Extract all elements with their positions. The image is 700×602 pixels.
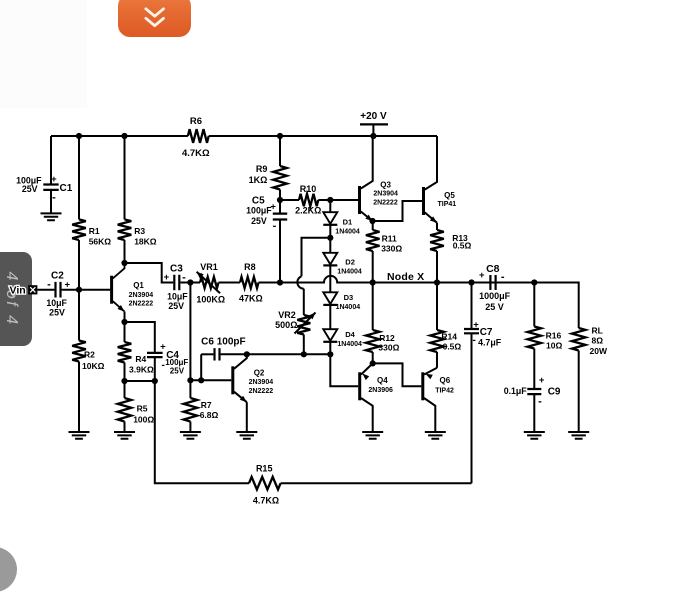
resistor R6 — [188, 129, 209, 143]
wire: R15 left segment up to C4 node — [155, 381, 249, 483]
wire: Q3 base — [330, 199, 358, 201]
junction: D4 / bias line / Q4 base wire — [327, 351, 333, 357]
transistor Q4 — [360, 363, 393, 432]
junction: C2 / R1 / R2 / Q1 base — [76, 287, 82, 293]
svg-text:R4: R4 — [135, 354, 146, 364]
resistor R5 — [118, 398, 132, 422]
junction: Q3 emitter / R11 / Q5 base wire — [369, 218, 375, 224]
svg-text:+: + — [473, 320, 479, 331]
capacitor C9 — [527, 389, 541, 394]
wire: VR2 to bias line — [303, 335, 305, 355]
wire: Q1 emitter down to node — [124, 312, 126, 322]
svg-text:1N4004: 1N4004 — [335, 228, 360, 235]
svg-text:D4: D4 — [345, 330, 355, 339]
junction: rail / R1 top — [76, 133, 82, 139]
svg-text:100μF: 100μF — [246, 205, 272, 215]
svg-text:25V: 25V — [168, 301, 184, 311]
svg-text:2N2222: 2N2222 — [373, 199, 398, 206]
wire: C4 to bottom node — [154, 357, 156, 381]
capacitor C4 — [147, 353, 163, 357]
svg-text:1000μF: 1000μF — [479, 291, 511, 301]
ground (Q2 emitter) — [236, 432, 257, 439]
wire: node line with hop over diode string — [280, 276, 579, 283]
junction: D1 / D2 / VR2 branch — [327, 235, 333, 241]
junction: R4 / R5 / C4 wire — [121, 378, 127, 384]
wire: D2 top — [329, 238, 331, 253]
wire: Q1 collector node to C3 — [125, 263, 174, 283]
wire: R2 to ground — [78, 362, 80, 433]
wire: +20V top rail right segment — [209, 135, 437, 137]
wire: Vin to C2 — [37, 289, 54, 291]
wire: D1-D2 junction left to VR2 column — [302, 238, 331, 276]
svg-text:Vin: Vin — [10, 285, 26, 297]
resistor R7 — [184, 398, 198, 422]
svg-text:R11: R11 — [382, 233, 397, 243]
wire: hop to VR2 — [303, 289, 305, 315]
wire: C5 to node line — [279, 220, 281, 283]
transistor Q6 — [423, 368, 454, 432]
wire: RL to ground — [578, 351, 580, 433]
potentiometer VR2 — [275, 310, 315, 335]
wire: Q2 base line — [190, 379, 231, 381]
svg-text:R3: R3 — [134, 226, 145, 236]
svg-text:-: - — [273, 220, 277, 232]
svg-text:25V: 25V — [170, 367, 185, 376]
wire: node line to R14 — [436, 283, 438, 331]
wire: C7 down to R15 — [471, 333, 473, 483]
floating gray circle (bottom left) — [0, 547, 17, 592]
wire: node line to R12 — [372, 283, 374, 331]
resistor R8 — [240, 277, 259, 288]
ground (Q4 collector) — [362, 432, 383, 439]
wire: R5 top — [124, 381, 126, 398]
svg-text:10μF: 10μF — [46, 298, 67, 308]
diode D2 — [323, 253, 337, 265]
wire: node line down to C7 — [471, 283, 473, 330]
svg-text:0.1μF: 0.1μF — [504, 386, 528, 396]
resistor R11 — [366, 230, 380, 251]
resistor R16 — [528, 327, 542, 349]
svg-text:10μF: 10μF — [167, 291, 188, 301]
transistor Q1 — [112, 263, 154, 312]
svg-text:Q1: Q1 — [133, 281, 144, 290]
capacitor C3 — [174, 275, 179, 290]
svg-text:1N4004: 1N4004 — [337, 341, 362, 348]
transistor Q3 — [360, 136, 399, 221]
wire: rail to R1 — [78, 136, 80, 219]
wire: R7 to ground — [189, 422, 191, 433]
wire: Q2 emitter to ground — [246, 402, 248, 432]
svg-text:R6: R6 — [190, 116, 202, 127]
svg-text:18KΩ: 18KΩ — [134, 236, 157, 246]
node Vin input terminal — [28, 285, 37, 294]
svg-text:4.7KΩ: 4.7KΩ — [253, 495, 279, 505]
wire: rail to R9 — [279, 136, 281, 166]
capacitor C6 — [201, 337, 247, 361]
svg-text:3.9KΩ: 3.9KΩ — [129, 364, 154, 374]
power +20 V supply symbol — [360, 111, 388, 136]
junction: R3 / Q1 collector / C3 wire — [121, 260, 127, 266]
transistor Q5 — [424, 136, 457, 223]
svg-text:20W: 20W — [590, 346, 608, 356]
potentiometer VR1 — [196, 262, 225, 305]
junction: rail / R3 top — [121, 133, 127, 139]
svg-text:D3: D3 — [344, 293, 354, 302]
junction: R7 / Q2 base wire — [187, 377, 193, 383]
svg-text:C3: C3 — [170, 263, 183, 274]
svg-text:D2: D2 — [345, 258, 355, 267]
junction: Q1 emitter / R4 / C4 wire — [121, 319, 127, 325]
svg-text:+: + — [51, 174, 57, 185]
svg-text:-: - — [473, 335, 476, 346]
svg-text:R15: R15 — [256, 464, 273, 474]
wire: node to D1 — [329, 200, 331, 212]
svg-text:25V: 25V — [49, 307, 65, 317]
svg-text:10Ω: 10Ω — [546, 340, 562, 350]
wire: VR1 to R8 — [219, 282, 241, 284]
svg-text:2N3904: 2N3904 — [129, 292, 154, 299]
wire: R11 to node line — [372, 251, 374, 283]
wire: R10 to diode top / Q3 base node — [318, 199, 330, 201]
resistor R3 — [118, 219, 132, 240]
junction: VR2 / bias line — [301, 351, 307, 357]
wire: R8 to C5 node — [259, 282, 281, 284]
wire: D4 to bias line — [329, 342, 331, 355]
wire: +20V top rail left segment — [51, 135, 188, 137]
resistor R2 — [72, 341, 86, 362]
wire: input node to R2 — [78, 290, 80, 341]
junction: R12 / Q4 emitter / Q6 base wire — [370, 360, 376, 366]
svg-text:100μF: 100μF — [165, 358, 188, 367]
wire: Q3 emitter node to Q5 base — [373, 201, 423, 221]
svg-text:1KΩ: 1KΩ — [249, 175, 268, 185]
svg-text:2.2KΩ: 2.2KΩ — [295, 205, 321, 215]
svg-text:C9: C9 — [548, 386, 561, 397]
svg-text:2N3904: 2N3904 — [373, 191, 398, 198]
svg-text:R14: R14 — [441, 332, 457, 342]
svg-text:C2: C2 — [51, 271, 64, 282]
svg-text:100Ω: 100Ω — [133, 414, 154, 424]
svg-text:R9: R9 — [256, 164, 268, 174]
junction: C4 / R15 column — [152, 378, 158, 384]
svg-text:Q6: Q6 — [440, 376, 451, 385]
wire: C3-VR1 node down to Q2 base line — [189, 283, 191, 381]
wire: bias line from Q2 collector to D4 bottom — [247, 353, 330, 355]
junction: C3 / VR1 / R7 branch — [187, 279, 193, 285]
svg-text:0.5Ω: 0.5Ω — [443, 341, 462, 351]
wire: Q5 emitter to R13 — [436, 223, 438, 230]
junction: node line / R13-R14 — [434, 279, 440, 285]
wire: Q1 emitter node to C4 — [125, 322, 155, 353]
svg-text:VR1: VR1 — [200, 262, 218, 272]
diode D3 — [323, 292, 337, 304]
wire: R15 right segment — [281, 482, 472, 484]
svg-text:R16: R16 — [546, 330, 562, 340]
diode D1 — [323, 212, 337, 224]
wire: R7 top — [189, 380, 191, 398]
junction: R8 / C5 / node line — [277, 279, 283, 285]
junction: rail / R9 top — [277, 133, 283, 139]
svg-text:+: + — [539, 375, 545, 386]
svg-text:2N2222: 2N2222 — [249, 388, 274, 395]
svg-text:2N3906: 2N3906 — [368, 387, 393, 394]
svg-text:330Ω: 330Ω — [381, 244, 402, 254]
svg-text:VR2: VR2 — [278, 310, 296, 320]
page indicator tab "4 of 4" — [0, 252, 32, 346]
svg-text:R12: R12 — [379, 333, 395, 343]
svg-text:4.7μF: 4.7μF — [478, 338, 502, 348]
svg-text:-: - — [501, 271, 505, 283]
svg-text:4.7KΩ: 4.7KΩ — [182, 148, 210, 159]
resistor R14 — [430, 330, 444, 352]
resistor R9 — [273, 166, 287, 190]
svg-text:+: + — [479, 270, 485, 281]
wire: Q4 emitter node to Q6 base — [373, 363, 422, 386]
svg-text:Node X: Node X — [387, 271, 424, 283]
resistor R4 — [118, 342, 132, 363]
svg-text:330Ω: 330Ω — [378, 343, 399, 353]
svg-text:-: - — [538, 396, 542, 408]
svg-text:C7: C7 — [480, 327, 493, 338]
svg-text:R10: R10 — [300, 184, 317, 194]
wire: Q3 emitter to R11 — [372, 221, 374, 230]
svg-text:Q5: Q5 — [444, 191, 455, 200]
svg-text:R1: R1 — [89, 226, 100, 236]
svg-text:+: + — [164, 272, 170, 283]
ground (Q6 collector) — [425, 432, 446, 439]
svg-text:2N2222: 2N2222 — [129, 301, 154, 308]
wire: C2 to Q1 base — [62, 289, 111, 291]
junction: C6 branch / Q2 base line — [198, 377, 204, 383]
svg-text:-: - — [52, 191, 56, 203]
resistor R13 — [430, 230, 444, 251]
junction: C6 / Q2 collector / bias line — [244, 351, 250, 357]
svg-text:C6 100pF: C6 100pF — [201, 337, 245, 348]
svg-text:25V: 25V — [251, 216, 267, 226]
scroll-down button — [118, 0, 191, 37]
ground (R5) — [114, 432, 135, 439]
svg-text:D1: D1 — [343, 218, 353, 227]
svg-text:R2: R2 — [84, 350, 95, 360]
svg-text:8Ω: 8Ω — [592, 335, 604, 345]
wire: R13 to node line — [436, 251, 438, 283]
wire: R16 to C9 — [533, 349, 535, 390]
svg-text:R5: R5 — [137, 403, 148, 413]
wire: rail to R3 — [124, 136, 126, 219]
wire: C9 to ground — [533, 394, 535, 432]
wire: R3 to Q1 collector node — [124, 240, 126, 263]
resistor R15 — [249, 477, 281, 490]
wire: C5 node to R10 — [280, 199, 299, 201]
junction: +20V / Q3 collector on rail — [370, 133, 376, 139]
wire: C6 branch down to Q2 base line — [200, 354, 202, 380]
svg-text:R7: R7 — [201, 400, 212, 410]
svg-text:1N4004: 1N4004 — [336, 304, 361, 311]
wire: diode bottom down to Q4 base — [330, 354, 358, 386]
capacitor C8 — [490, 275, 495, 290]
wire: node line corner down to RL — [497, 283, 579, 329]
wire: R1 to input node — [78, 240, 80, 290]
ground (R7) — [180, 432, 201, 439]
resistor R1 — [72, 219, 86, 240]
resistor R10 — [299, 194, 318, 206]
svg-text:25 V: 25 V — [485, 302, 504, 312]
svg-text:Q2: Q2 — [254, 369, 265, 378]
svg-text:+20 V: +20 V — [360, 111, 387, 122]
svg-text:C8: C8 — [486, 263, 500, 275]
junction: node line / R11-R12 — [370, 279, 376, 285]
ground (C9) — [524, 432, 545, 439]
svg-text:10KΩ: 10KΩ — [82, 361, 105, 371]
capacitor C1 — [43, 185, 58, 190]
svg-text:0.5Ω: 0.5Ω — [453, 241, 472, 251]
wire: C3 to VR1 — [180, 282, 200, 284]
junction: R9 / R10 / C5 — [277, 197, 283, 203]
wire: D1 to D2 junction — [329, 225, 331, 238]
wire hop: VR2 column hops over node line — [297, 276, 303, 288]
resistor RL — [572, 328, 586, 351]
capacitor C7 — [464, 329, 479, 333]
wire: R4-C4 bottom link — [125, 380, 155, 382]
ground (RL) — [568, 432, 589, 439]
junction: node line / C7 feedback — [468, 279, 474, 285]
svg-text:RL: RL — [592, 326, 603, 336]
wire: node line to R16 — [533, 283, 535, 327]
capacitor C2 — [56, 282, 61, 298]
wire: R4 to bottom node — [124, 363, 126, 382]
wire: R4 top — [124, 322, 126, 342]
svg-text:2N3904: 2N3904 — [249, 379, 274, 386]
capacitor C5 — [279, 200, 281, 214]
wire: D3 to D4 — [329, 305, 331, 329]
svg-text:Q4: Q4 — [377, 376, 388, 385]
transistor Q2 — [233, 354, 273, 402]
svg-text:TIP42: TIP42 — [435, 387, 454, 394]
svg-text:Q3: Q3 — [380, 181, 391, 190]
svg-text:C1: C1 — [60, 183, 73, 194]
wire: R14 to Q6 emitter — [436, 352, 438, 368]
junction: R10 / D1 / Q3 base — [327, 197, 333, 203]
wire: R9 to R10/C5 node — [279, 190, 281, 201]
svg-text:1N4004: 1N4004 — [337, 269, 362, 276]
svg-text:56KΩ: 56KΩ — [89, 236, 112, 246]
wire: R12 to Q4 emitter node — [372, 352, 374, 363]
ground (C1) — [41, 213, 62, 220]
svg-text:6.8Ω: 6.8Ω — [200, 410, 219, 420]
junction: node line / R16 — [531, 279, 537, 285]
svg-text:TIP41: TIP41 — [438, 201, 457, 208]
ground (R2) — [69, 432, 90, 439]
wire: D2 to D3 (passes under node-line hop) — [329, 265, 331, 292]
wire: R5 to ground — [124, 422, 126, 433]
wire: rail down to C1 — [50, 136, 52, 185]
diode D4 — [323, 329, 337, 341]
svg-text:25V: 25V — [22, 184, 38, 194]
resistor R12 — [366, 330, 380, 352]
svg-text:47KΩ: 47KΩ — [239, 293, 263, 303]
svg-text:500Ω: 500Ω — [275, 320, 297, 330]
svg-text:100KΩ: 100KΩ — [196, 294, 225, 304]
svg-text:R8: R8 — [244, 262, 256, 272]
wire: C1 to ground — [50, 190, 52, 214]
